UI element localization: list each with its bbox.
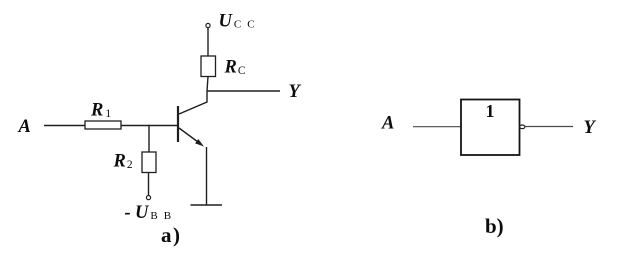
gate U1 body (NOT gate, IEC symbol)	[461, 100, 520, 156]
svg-text:A: A	[18, 117, 31, 137]
wire node to R2	[148, 126, 150, 153]
svg-text:Y: Y	[289, 82, 302, 102]
gate U1 inversion bubble	[520, 125, 525, 129]
wire collector node to Y	[207, 90, 280, 92]
svg-text:A: A	[381, 114, 394, 134]
resistor RC	[201, 56, 216, 77]
svg-text:Y: Y	[584, 118, 597, 138]
terminal -UBB	[146, 196, 150, 200]
wire UCC to RC	[207, 28, 209, 56]
svg-text:b): b)	[485, 214, 504, 238]
wire gate to Y	[525, 126, 573, 128]
svg-text:-: -	[125, 203, 131, 223]
wire emitter to ground	[206, 147, 208, 205]
resistor R2	[142, 152, 156, 173]
wire RC to collector node	[207, 77, 208, 92]
transistor Q1 base bar	[177, 106, 179, 142]
svg-text:1: 1	[486, 101, 495, 121]
wire R1 to base node	[121, 125, 178, 127]
resistor R1	[85, 121, 121, 129]
terminal UCC	[206, 23, 210, 27]
svg-text:a): a)	[161, 223, 182, 247]
wire A to R1	[44, 125, 85, 127]
transistor Q1 collector lead	[179, 91, 207, 114]
node junction base/R2	[148, 125, 149, 126]
transistor Q1 emitter lead	[179, 128, 198, 142]
label -UBB	[125, 203, 178, 223]
wire R2 to -UBB terminal	[148, 173, 150, 196]
emitter arrowhead	[195, 139, 204, 147]
wire A to gate	[413, 126, 461, 128]
ground	[191, 204, 223, 206]
